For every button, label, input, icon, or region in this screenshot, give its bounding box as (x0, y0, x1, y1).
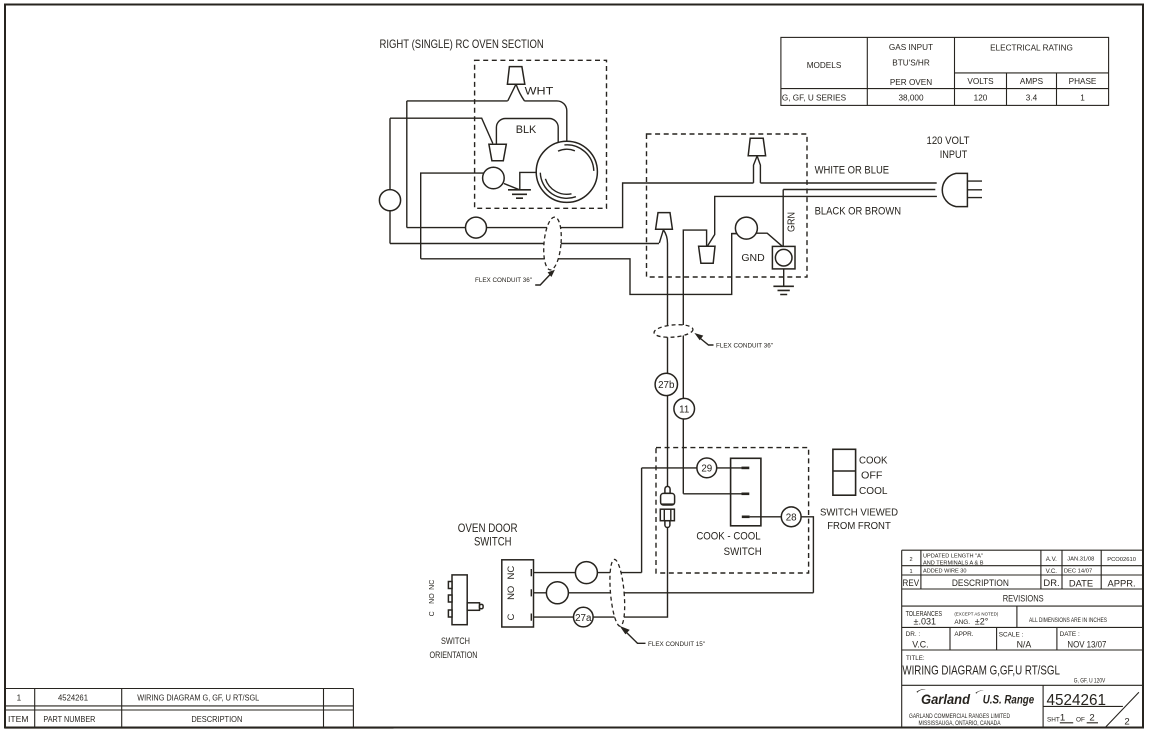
blower motor M (536, 141, 597, 202)
wire 27 chain down from igniter (667, 244, 669, 487)
svg-text:DATE :: DATE : (1060, 631, 1080, 638)
svg-text:BLK: BLK (516, 124, 537, 136)
svg-text:GRN: GRN (786, 212, 798, 232)
wire WHT: motor top to left rail (407, 101, 567, 141)
svg-text:2: 2 (1089, 712, 1094, 723)
motor inner arc top-right outer (564, 145, 593, 171)
svg-text:OFF: OFF (861, 469, 883, 481)
svg-text:1: 1 (1080, 94, 1085, 103)
oven door switch terminal block (502, 560, 534, 627)
svg-text:NO: NO (429, 593, 436, 604)
wire 3 run to junction box (421, 234, 737, 295)
svg-text:38,000: 38,000 (898, 94, 923, 103)
svg-text:V.C.: V.C. (1046, 568, 1058, 575)
svg-text:AND TERMINALS A & B: AND TERMINALS A & B (923, 560, 984, 566)
svg-text:GARLAND COMMERCIAL RANGES LIMI: GARLAND COMMERCIAL RANGES LIMITED (909, 713, 1010, 720)
svg-text:PHASE: PHASE (1069, 77, 1097, 86)
svg-text:N/A: N/A (1017, 640, 1032, 650)
wire 27a drop from connector (593, 528, 667, 618)
wire 3: C3 to left (421, 173, 484, 259)
svg-text:NC: NC (429, 580, 436, 590)
svg-text:1: 1 (909, 569, 912, 575)
svg-text:DATE: DATE (1069, 578, 1093, 589)
igniter top leads (754, 156, 761, 183)
svg-text:MISSISSAUGA, ONTARIO, CANADA: MISSISSAUGA, ONTARIO, CANADA (919, 720, 1002, 727)
motor inner arc bottom-left inner (545, 179, 571, 194)
flex conduit 36in (vertical pair) (654, 323, 694, 339)
svg-text:DEC 14/07: DEC 14/07 (1064, 569, 1092, 575)
svg-text:28: 28 (786, 512, 797, 523)
svg-text:TITLE:: TITLE: (906, 655, 925, 662)
svg-text:DR. :: DR. : (906, 631, 921, 638)
spec table (781, 37, 1109, 105)
svg-text:G, GF, U SERIES: G, GF, U SERIES (782, 94, 847, 103)
svg-text:Garland: Garland (921, 691, 970, 707)
svg-text:JAN.31/08: JAN.31/08 (1067, 557, 1094, 563)
svg-text:UPDATED LENGTH "A": UPDATED LENGTH "A" (923, 554, 983, 560)
connector BLK (trapezoid) (489, 144, 506, 160)
svg-text:OF: OF (1076, 716, 1085, 723)
oven door switch wires (533, 572, 642, 574)
svg-text:AMPS: AMPS (1020, 77, 1044, 86)
flex conduit 36in (left) (542, 216, 564, 270)
wire GRN drop (782, 190, 784, 247)
node 27a (574, 607, 594, 627)
svg-text:ADDED WIRE 30: ADDED WIRE 30 (923, 569, 967, 575)
power plug 120V (942, 173, 967, 206)
svg-text:SWITCH VIEWED: SWITCH VIEWED (820, 506, 898, 518)
svg-text:REVISIONS: REVISIONS (1003, 593, 1044, 604)
svg-text:SWITCH: SWITCH (441, 636, 470, 646)
terminal ticks (530, 569, 532, 621)
svg-text:U.S. Range: U.S. Range (983, 694, 1035, 707)
wire: to splice circle C2 (407, 227, 466, 229)
terminal circle C3 (motor ground lead) (483, 167, 505, 189)
wire 29 riser (641, 468, 643, 573)
flex conduit 15in (608, 559, 627, 627)
svg-text:DESCRIPTION: DESCRIPTION (952, 577, 1009, 588)
switch pin wire 28 (742, 515, 750, 518)
switch tabs (448, 582, 452, 589)
junction box boundary (dashed box 2) (647, 134, 808, 277)
motor inner arc bottom-left outer (540, 173, 576, 199)
svg-text:29: 29 (701, 464, 712, 475)
RC oven section boundary (dashed box 1) (475, 60, 607, 208)
wire: motor to ground point (520, 172, 537, 189)
plug prongs (967, 181, 982, 198)
svg-text:DESCRIPTION: DESCRIPTION (191, 715, 242, 724)
svg-text:SWITCH: SWITCH (474, 535, 512, 549)
svg-text:2: 2 (1124, 717, 1129, 728)
NO splice circle (546, 582, 568, 604)
wire 2: left rail to BLK connector (390, 118, 493, 143)
svg-text:VOLTS: VOLTS (967, 77, 994, 86)
parts list table (5, 689, 394, 729)
rocker legend box (833, 449, 856, 495)
splice circle C1 (379, 190, 400, 211)
svg-text:WIRING DIAGRAM G,GF,U RT/SGL: WIRING DIAGRAM G,GF,U RT/SGL (902, 662, 1060, 677)
svg-text:COOL: COOL (859, 485, 888, 497)
inline connector (wire 27) upper half (665, 486, 670, 493)
NC splice circle (575, 562, 597, 584)
svg-text:FROM FRONT: FROM FRONT (827, 520, 891, 532)
wire 11 chain: cook switch to igniter (inverted trapezoid) (683, 230, 706, 494)
svg-text:ALL DIMENSIONS ARE IN INCHES: ALL DIMENSIONS ARE IN INCHES (1029, 617, 1107, 624)
wire: ground lug to left loop (732, 233, 737, 235)
node 28 (781, 507, 801, 527)
svg-text:4524261: 4524261 (1047, 692, 1107, 709)
wire: left rail down from WHT (406, 101, 408, 228)
svg-text:NOV 13/07: NOV 13/07 (1067, 639, 1106, 649)
svg-text:ORIENTATION: ORIENTATION (430, 650, 478, 660)
svg-text:PER OVEN: PER OVEN (890, 78, 932, 87)
svg-text:ELECTRICAL RATING: ELECTRICAL RATING (990, 44, 1073, 53)
svg-text:INPUT: INPUT (940, 149, 968, 161)
svg-text:GAS INPUT: GAS INPUT (889, 43, 933, 52)
svg-text:SWITCH: SWITCH (724, 546, 762, 558)
svg-text:APPR.: APPR. (954, 631, 973, 638)
node 11 (674, 398, 695, 419)
igniter connector (left, wire 27 chain) (656, 213, 673, 230)
ground lug circle (735, 217, 757, 239)
svg-text:MODELS: MODELS (807, 61, 842, 70)
svg-text:1: 1 (1060, 712, 1065, 723)
svg-text:FLEX CONDUIT 36": FLEX CONDUIT 36" (475, 277, 533, 284)
svg-text:PART NUMBER: PART NUMBER (43, 715, 95, 724)
svg-text:FLEX CONDUIT 15": FLEX CONDUIT 15" (648, 641, 706, 648)
svg-text:27a: 27a (575, 613, 592, 624)
igniter connector (inverted trapezoid) (699, 246, 715, 263)
svg-text:1: 1 (17, 694, 22, 703)
svg-text:COOK: COOK (859, 454, 888, 466)
svg-text:NO: NO (506, 586, 517, 600)
wire GRN to plug (middle) (783, 189, 935, 191)
svg-text:WIRING DIAGRAM G, GF, U RT/SGL: WIRING DIAGRAM G, GF, U RT/SGL (137, 694, 260, 703)
svg-text:COOK - COOL: COOK - COOL (696, 531, 760, 543)
svg-text:SHT: SHT (1047, 716, 1060, 723)
svg-text:FLEX CONDUIT 36": FLEX CONDUIT 36" (716, 343, 774, 350)
svg-text:ITEM: ITEM (8, 715, 29, 724)
flex conduit 36in label arrow (535, 273, 552, 286)
ground symbol below box (783, 269, 785, 286)
ground (oven section) (508, 190, 531, 198)
svg-text:A.V.: A.V. (1046, 556, 1057, 563)
svg-text:PCO02610: PCO02610 (1107, 557, 1136, 563)
connector WHT leads (508, 85, 525, 101)
svg-text:3.4: 3.4 (1026, 94, 1038, 103)
wire 2 run to igniter junction (390, 243, 659, 245)
wire BLACK OR BROWN corner to igniter (708, 196, 937, 246)
title block (902, 550, 1144, 728)
svg-text:V.C.: V.C. (912, 639, 928, 649)
svg-text:OVEN DOOR: OVEN DOOR (458, 521, 518, 535)
svg-text:2: 2 (909, 557, 912, 563)
connector plug WHT (trapezoid) (507, 67, 524, 85)
svg-text:DR.: DR. (1043, 577, 1059, 588)
igniter connector (top, on white rail) (748, 138, 765, 155)
svg-text:C: C (429, 611, 436, 616)
svg-text:120 VOLT: 120 VOLT (927, 135, 970, 147)
svg-text:NC: NC (506, 566, 517, 580)
svg-text:SCALE :: SCALE : (999, 632, 1024, 639)
wire: lug circle to ground box (756, 233, 782, 246)
wire: C2 to corner up to WHITE OR BLUE rail (487, 183, 937, 228)
switch pin wire 29 (642, 467, 742, 469)
svg-text:11: 11 (679, 404, 689, 415)
svg-text:WHITE OR BLUE: WHITE OR BLUE (815, 165, 890, 177)
door switch physical body (452, 575, 467, 625)
splice circle C2 (466, 217, 487, 238)
svg-text:120: 120 (974, 94, 988, 103)
svg-text:27b: 27b (658, 380, 675, 391)
svg-text:APPR.: APPR. (1108, 578, 1136, 589)
Garland / U.S. Range logo (917, 689, 926, 693)
switch plunger (467, 603, 479, 611)
svg-text:WHT: WHT (525, 86, 554, 98)
svg-text:BLACK OR BROWN: BLACK OR BROWN (815, 206, 902, 218)
node 29 (697, 458, 717, 478)
svg-text:±2°: ±2° (975, 617, 989, 627)
ground terminal box (772, 246, 795, 269)
wire BLK: connector to motor (496, 119, 558, 144)
node 27b (655, 373, 677, 395)
svg-text:GND: GND (741, 252, 765, 264)
svg-text:C: C (506, 614, 517, 621)
cook-cool switch boundary (dashed box 3) (656, 448, 809, 573)
conduit 15 label arrow (624, 630, 646, 643)
motor inner arc top short (558, 149, 575, 151)
igniter left leads (Y junction) (659, 230, 667, 244)
cook-cool switch body (731, 458, 761, 526)
svg-text:RIGHT (SINGLE) RC OVEN SECTION: RIGHT (SINGLE) RC OVEN SECTION (380, 38, 544, 51)
svg-text:BTU'S/HR: BTU'S/HR (892, 59, 930, 68)
svg-text:4524261: 4524261 (58, 694, 88, 703)
wire: C3 to ground point (diagonal) (504, 184, 520, 190)
inline connector lower half (660, 509, 674, 521)
switch pin wire 11 (683, 493, 741, 495)
svg-text:REV: REV (903, 577, 920, 588)
svg-text:±.031: ±.031 (914, 617, 936, 627)
svg-text:G, GF, U 120V: G, GF, U 120V (1074, 678, 1106, 685)
svg-text:ANG.: ANG. (954, 619, 970, 626)
conduit 2 label arrow (698, 337, 714, 346)
